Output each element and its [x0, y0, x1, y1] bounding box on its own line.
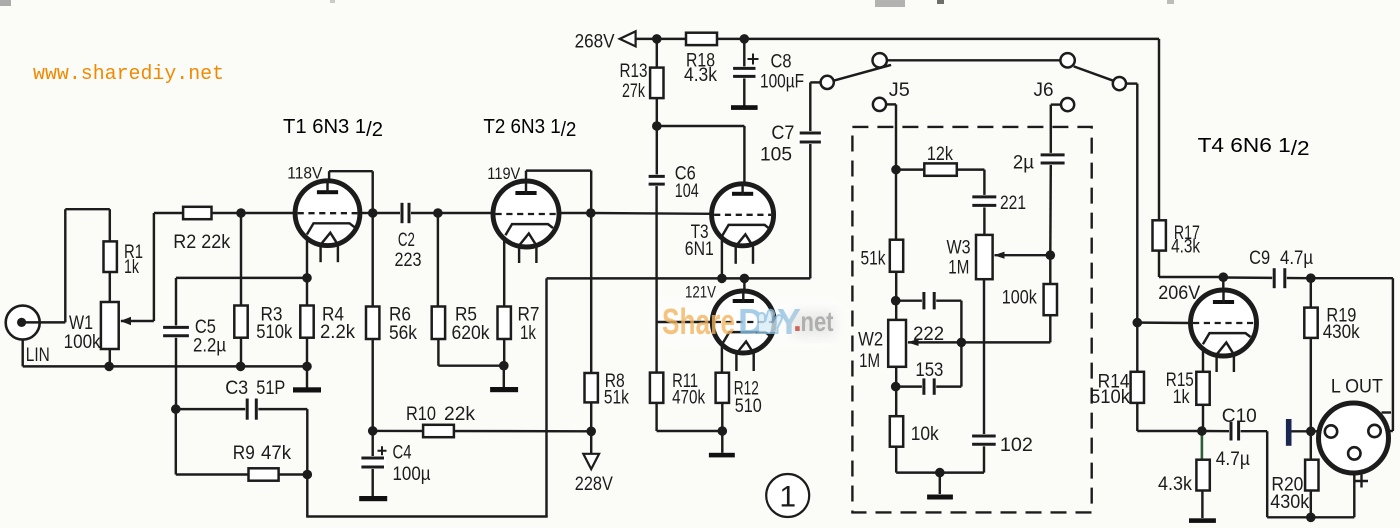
svg-text:430k: 430k [1270, 492, 1309, 513]
node at 1223.3,277.2 [1219, 272, 1229, 282]
resistor R4 [300, 306, 313, 338]
resistor R9 [249, 468, 279, 480]
capacitor C9 [1272, 266, 1287, 290]
wire T1 out / R6 / C4 vertical [360, 212, 373, 214]
wire XLR pin3 loop [1381, 430, 1393, 432]
tube T2 6N3 1/2 [493, 181, 559, 247]
tube T3 upper 6N1 [712, 184, 774, 246]
svg-text:620k: 620k [452, 323, 490, 344]
node at 961.4,342.4 [957, 338, 967, 348]
wire W2 wiper row [908, 341, 1050, 343]
capacitor C10 [1229, 420, 1241, 443]
svg-text:C7: C7 [771, 123, 794, 144]
svg-text:net: net [801, 306, 834, 337]
watermark halo [652, 300, 842, 342]
node at 895.7,386.6 [891, 382, 901, 392]
wire LIN to R1 branch [22, 321, 66, 323]
tube T1 6N3 1/2 [295, 181, 360, 246]
switch J5 arm [832, 65, 891, 81]
wire R13 leads [656, 39, 658, 68]
wire C3 node vertical [175, 409, 177, 474]
wire T2 cathode to R7 [503, 232, 505, 307]
svg-text:228V: 228V [575, 474, 613, 495]
svg-text:C10: C10 [1222, 406, 1257, 427]
node at 656.8,38.9 [652, 34, 662, 44]
wire W3 wiper [995, 254, 1051, 256]
wire R9 row [176, 473, 307, 475]
wire T1 cathode bus [176, 277, 307, 279]
capacitor C8 electrolytic [731, 66, 757, 78]
svg-text:10k: 10k [911, 424, 939, 445]
wire T3 lower grid [657, 321, 713, 323]
wire LIN shield down [21, 340, 23, 367]
wire grid node to R3 [240, 213, 242, 306]
svg-text:1k: 1k [520, 323, 536, 344]
wire W1 wiper [121, 320, 154, 322]
wire R8 vertical [590, 213, 592, 373]
resistor R18 [686, 33, 717, 45]
svg-text:510: 510 [735, 396, 762, 417]
capacitor 221 [970, 195, 998, 208]
wire R5 vertical [437, 213, 439, 307]
capacitor C4 electrolytic [359, 456, 386, 469]
wire R1 to W1 [109, 272, 111, 302]
capacitor 2µ [1039, 153, 1067, 165]
wire R17 to T4 plate [1158, 251, 1160, 277]
svg-text:C9: C9 [1249, 248, 1270, 269]
node at 437.9,213 [433, 208, 443, 218]
svg-text:100k: 100k [1002, 288, 1037, 309]
svg-text:27k: 27k [622, 81, 645, 102]
resistor 4.3k output [1196, 460, 1209, 491]
svg-text:R2 22k: R2 22k [173, 232, 230, 253]
resistor R20 [1305, 460, 1318, 491]
switch J6 output contact [1113, 77, 1126, 90]
resistor 100k [1044, 284, 1057, 315]
resistor 12k [924, 163, 957, 175]
node at 896,169.6 [891, 165, 901, 175]
svg-text:102: 102 [1000, 435, 1033, 456]
svg-text:56k: 56k [389, 323, 417, 344]
node at 307,277.9 [302, 273, 312, 283]
ground under R12 [709, 453, 735, 458]
node at 307,366.4 [302, 362, 312, 372]
wire node to XLR pin2 [1311, 430, 1325, 432]
connector L OUT (XLR) [1319, 403, 1389, 473]
svg-text:100k: 100k [64, 332, 101, 353]
svg-text:4.3k: 4.3k [684, 65, 717, 86]
wire SRPP output bus [547, 277, 811, 279]
node at 895.7,300.7 [891, 296, 901, 306]
node at 241,213 [236, 208, 246, 218]
wire C10 row [1202, 430, 1231, 433]
wire T-bar to node [1292, 430, 1311, 432]
connector LIN [6, 306, 40, 340]
capacitor C7 [798, 131, 823, 144]
svg-text:W3: W3 [947, 238, 971, 259]
resistor R17 [1153, 220, 1166, 250]
arrow 268V [620, 31, 636, 46]
wire T3 lower plate [743, 278, 745, 303]
svg-text:www.sharediy.net: www.sharediy.net [33, 63, 224, 86]
svg-text:206V: 206V [1158, 282, 1200, 304]
svg-text:100µ: 100µ [393, 464, 431, 485]
wire R13 to T3 plate [657, 125, 745, 127]
node at 656.8,126 [652, 121, 662, 131]
wire R4 to ground [306, 366, 308, 389]
wire R14 chain [1136, 323, 1138, 372]
switch J5 lower contact [873, 98, 886, 111]
svg-text:Share: Share [662, 301, 735, 342]
ground under C4 [359, 496, 387, 501]
wire box ground row [896, 471, 984, 473]
wire C5 branch [175, 278, 177, 328]
wire 10k leads [895, 387, 897, 417]
svg-text:6N1: 6N1 [685, 239, 714, 260]
svg-text:470k: 470k [672, 388, 705, 409]
resistor R6 [366, 307, 379, 340]
resistor R15 [1196, 372, 1209, 405]
svg-text:4.7µ: 4.7µ [1216, 449, 1250, 470]
svg-text:1: 1 [779, 481, 796, 514]
svg-text:4.7µ: 4.7µ [1280, 248, 1313, 269]
wire J5 lower contact in [886, 103, 896, 105]
svg-text:T1 6N3 1/2: T1 6N3 1/2 [283, 116, 383, 141]
potentiometer W2 [888, 320, 906, 367]
svg-text:2µ: 2µ [1013, 153, 1034, 174]
node at 1310.8,431.3 [1306, 427, 1316, 437]
wire 4.3k output leads [1201, 431, 1204, 460]
resistor R13 [650, 68, 663, 99]
svg-text:4.3k: 4.3k [1158, 474, 1192, 495]
capacitor C6 [647, 174, 667, 186]
node at 590.8,213 [586, 208, 596, 218]
wire C2 row [373, 212, 438, 214]
wire feedback bottom [306, 475, 308, 517]
svg-text:T2 6N3 1/2: T2 6N3 1/2 [483, 116, 576, 141]
svg-text:LIN: LIN [26, 345, 50, 366]
capacitor C5 [161, 325, 191, 337]
wire C10 out corner [1239, 430, 1268, 432]
svg-text:1M: 1M [859, 351, 880, 372]
resistor 51k [890, 240, 903, 272]
wire 222 cap row [896, 299, 961, 301]
node at 591.2,431.3 [586, 427, 596, 437]
chassis bar [1286, 419, 1292, 446]
svg-text:R10: R10 [406, 404, 436, 425]
svg-text:47k: 47k [261, 443, 291, 464]
resistor R5 [432, 307, 445, 340]
svg-text:C3: C3 [225, 378, 248, 399]
ground in tone box [927, 495, 953, 500]
wire 153 cap row [896, 385, 961, 387]
wire R4 leads [306, 278, 308, 306]
wire 268V rail [636, 38, 1159, 40]
resistor 10k [890, 416, 903, 447]
resistor R1 [104, 241, 117, 272]
wire J6 right contact out [1126, 82, 1137, 84]
tube T4 6N6 1/2 [1191, 290, 1257, 356]
svg-text:268V: 268V [575, 32, 615, 53]
resistor R10 [423, 425, 454, 437]
wire J5 pivot to J6 pivot [887, 59, 1061, 61]
wire 51k chain [895, 170, 897, 240]
svg-text:51k: 51k [604, 388, 629, 409]
svg-text:104: 104 [675, 181, 699, 202]
node at 240.6,366.4 [236, 362, 246, 372]
wire T2 to T3 upper grid [591, 212, 712, 215]
node at 1050.3,255.2 [1046, 250, 1056, 260]
switch J5 input contact [821, 76, 834, 89]
svg-text:12k: 12k [927, 144, 953, 165]
resistor R19 [1304, 308, 1317, 338]
svg-text:100µF: 100µF [760, 72, 804, 93]
svg-text:W1: W1 [69, 313, 93, 334]
potentiometer W3 [976, 235, 993, 279]
wire W2 leads [895, 301, 897, 320]
node at 744.3,38.9 [740, 34, 750, 44]
wire T3 lower cathode [721, 340, 723, 373]
svg-text:430k: 430k [1323, 322, 1360, 343]
wire T2 plate loop [525, 171, 527, 194]
label plus [1355, 475, 1368, 488]
svg-text:C4: C4 [393, 443, 412, 464]
svg-text:4.3k: 4.3k [1171, 237, 1200, 258]
svg-text:W2: W2 [858, 330, 883, 351]
svg-text:51k: 51k [861, 249, 886, 270]
wire C3 row [176, 408, 307, 410]
wire T2 out stub [559, 212, 591, 214]
wire R10 row [373, 430, 592, 433]
wire R11 bottom row [655, 403, 657, 431]
svg-text:153: 153 [915, 360, 943, 381]
ground under R4 [293, 387, 321, 392]
wire R3 bottom [240, 338, 242, 367]
label minus [1382, 411, 1392, 413]
switch J6 lower contact [1061, 98, 1074, 111]
resistor R14 [1131, 372, 1144, 403]
svg-text:105: 105 [760, 145, 792, 166]
resistor R2 [183, 207, 211, 219]
wire T4 cathode to R15 [1202, 342, 1204, 372]
wire C8 leads [743, 39, 745, 69]
svg-text:510k: 510k [1090, 387, 1130, 408]
node at 307.3,474.5 [303, 470, 313, 480]
wire R19/R20 vertical [1310, 278, 1312, 307]
wire C9 row [1223, 276, 1311, 279]
wire T4 plate lead [1222, 277, 1224, 303]
svg-text:510k: 510k [256, 322, 292, 343]
circled 1 [766, 474, 809, 517]
svg-text:1M: 1M [948, 258, 969, 279]
svg-text:1k: 1k [1173, 387, 1190, 408]
ground under R7 [490, 387, 518, 392]
resistor R3 [234, 306, 247, 338]
wire 100k to wiper row [1049, 315, 1051, 342]
wire J6 lower contact in [1051, 103, 1061, 105]
svg-text:118V: 118V [287, 164, 323, 183]
svg-text:C2: C2 [398, 230, 415, 251]
svg-text:L OUT: L OUT [1331, 377, 1383, 398]
wire XLR pin1 to bottom [1353, 459, 1355, 517]
wire R12 ground [721, 403, 723, 453]
resistor R7 [498, 307, 511, 340]
wire T3 upper cathode [721, 232, 723, 278]
wire 221 to W3 [983, 205, 985, 235]
node at 109.1,366.4 [104, 362, 114, 372]
switch J6 pivot contact [1060, 53, 1074, 67]
svg-text:22k: 22k [444, 404, 475, 425]
node at 372.7,213 [368, 208, 378, 218]
svg-text:1k: 1k [124, 257, 139, 278]
svg-text:121V: 121V [685, 283, 717, 302]
capacitor 153 [922, 376, 936, 396]
switch J5 pivot contact [873, 53, 887, 67]
node at 744.4,278.4 [740, 274, 750, 284]
node at 175.8,409.1 [171, 404, 181, 414]
watermark ShareDIY.net [662, 301, 835, 342]
svg-text:2.2k: 2.2k [320, 322, 355, 343]
wire T1 cathode lead [306, 230, 308, 278]
wire T1 plate loop [328, 171, 330, 194]
wire W1 bottom [109, 349, 111, 366]
node at 1201.9,431 [1197, 426, 1207, 436]
svg-text:R9: R9 [233, 443, 255, 464]
tube T3 lower 6N1 [712, 291, 774, 353]
node at 721.9,278.4 [717, 274, 727, 284]
switch J6 arm [1074, 66, 1114, 80]
ground under 4.3k [1189, 518, 1216, 523]
node at 939.8,472.6 [935, 468, 945, 478]
node at 1137.3,322.6 [1133, 318, 1143, 328]
wire W3 to 102 [983, 279, 985, 436]
svg-text:221: 221 [1000, 193, 1026, 214]
wire 102 to ground row [983, 444, 985, 472]
svg-text:R13: R13 [620, 61, 648, 82]
svg-text:223: 223 [395, 250, 422, 271]
resistor R12 [716, 373, 729, 403]
capacitor 222 [922, 290, 936, 311]
svg-text:51P: 51P [256, 378, 285, 399]
svg-text:J6: J6 [1034, 80, 1054, 101]
svg-text:C8: C8 [771, 52, 792, 73]
capacitor C3 [245, 397, 258, 422]
wire 12k row [896, 168, 924, 170]
node at 503.8,365.7 [499, 361, 509, 371]
svg-text:J5: J5 [889, 80, 910, 101]
node at 372.7,430.9 [368, 426, 378, 436]
wire ground bus left [23, 365, 307, 367]
wire R2 to T1 grid [212, 212, 296, 214]
wire 2u to 100k [1049, 163, 1052, 255]
wire 12k to 221 [983, 170, 985, 197]
svg-text:2.2µ: 2.2µ [193, 336, 226, 357]
capacitor 102 [970, 434, 998, 446]
node at 1310.8,278.2 [1306, 273, 1316, 283]
wire R5-R7 ground row [438, 364, 503, 366]
potentiometer W1 [101, 302, 119, 349]
arrow 228V [583, 454, 599, 469]
wire C3 to R9 corner [306, 409, 308, 474]
wire C4 leads [371, 431, 373, 458]
resistor R11 [650, 373, 663, 403]
node at 1310.8,517.3 [1306, 513, 1316, 523]
resistor R8 [585, 373, 598, 402]
wire T2 grid [438, 212, 493, 214]
tone network box (dashed) [852, 127, 1091, 513]
ground under C8 [731, 105, 758, 110]
node at 722.3,431 [718, 426, 728, 436]
svg-text:119V: 119V [487, 164, 521, 183]
wire C7 branch [809, 142, 811, 278]
wire C6 chain [656, 126, 658, 176]
wire T4 grid row [1137, 321, 1191, 324]
svg-text:T4 6N6 1/2: T4 6N6 1/2 [1198, 135, 1310, 160]
capacitor C2 [400, 201, 411, 225]
